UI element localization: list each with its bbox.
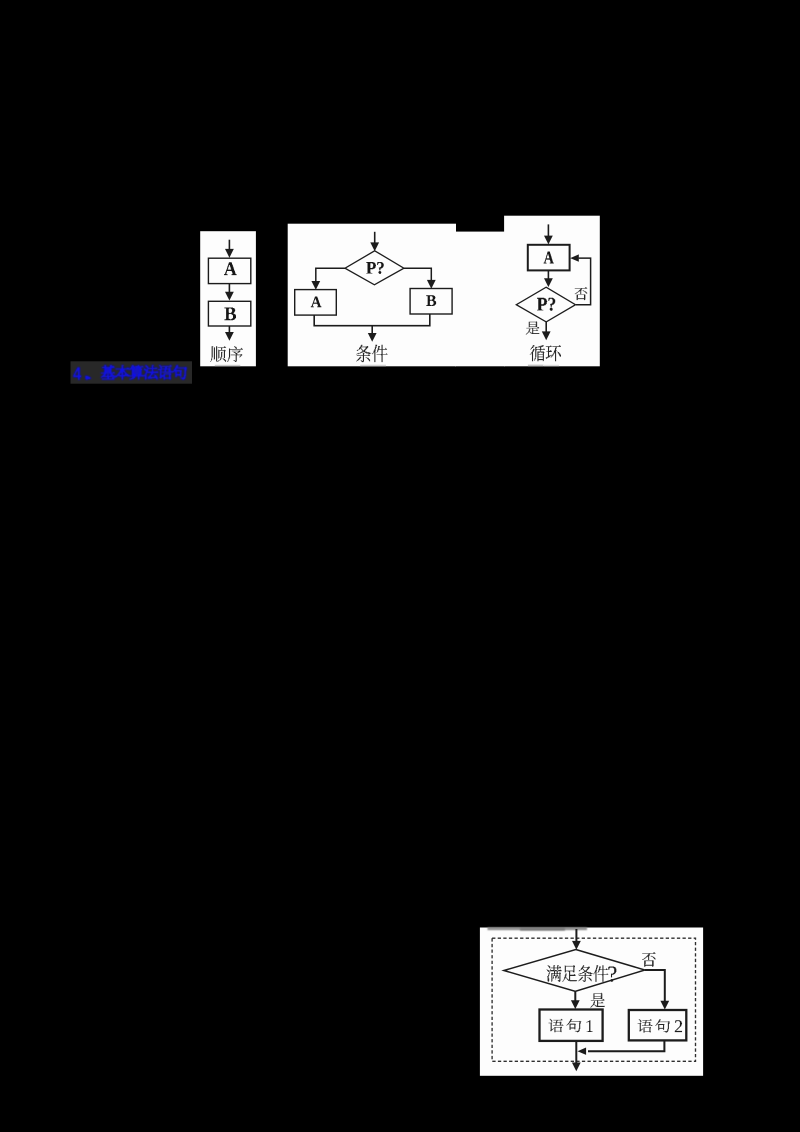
fig2 wire out <box>371 326 373 335</box>
white patch fig2 <box>288 224 456 367</box>
fig1 scan bar <box>215 365 241 367</box>
fig2 diamond P? <box>345 251 404 285</box>
fig2 scan bar <box>360 365 386 367</box>
white patch fig1 <box>200 231 256 366</box>
fig3 label fou <box>575 287 587 300</box>
fig1 label shunxu <box>211 346 227 362</box>
white patch fig4 <box>480 928 703 1076</box>
fig2 wire left branch <box>316 268 345 283</box>
fig4 dashed frame <box>492 938 695 1061</box>
heading text 4. jiben suanfa yuju <box>73 365 186 380</box>
heading halo <box>71 361 193 383</box>
fig4 label fou <box>642 952 655 967</box>
fig2 wire right branch <box>404 268 431 282</box>
fig4 wire join from box2 <box>588 1040 664 1051</box>
fig1 box A <box>208 258 250 283</box>
fig4 diamond <box>504 950 645 992</box>
fig2 box A <box>295 290 337 316</box>
fig4 wire in <box>575 929 577 942</box>
fig4 label shi <box>590 993 605 1008</box>
fig1 wire A-B <box>228 284 230 293</box>
fig3 wire top <box>547 224 549 237</box>
white bridge <box>455 232 505 367</box>
fig3 scan bar <box>528 365 544 367</box>
fig4 box yuju1 <box>540 1010 603 1041</box>
fig4 wire out <box>575 1041 577 1064</box>
fig3 label shi <box>526 321 540 334</box>
fig4 diamond text manzutiaojian <box>547 965 562 982</box>
fig4 top remnant smudge <box>488 927 588 931</box>
fig1 box B <box>208 301 250 326</box>
fig4 wire right branch <box>645 970 665 1002</box>
fig3 wire out <box>545 322 547 333</box>
fig3 box A <box>528 245 570 271</box>
fig1 wire out <box>228 326 230 333</box>
white patch fig3 <box>504 216 600 367</box>
fig1 wire top <box>228 240 230 250</box>
fig3 wire A-diamond <box>547 270 549 280</box>
fig2 wire top <box>374 232 376 244</box>
fig2 wire join <box>314 314 430 326</box>
fig3 diamond P? <box>516 287 575 322</box>
fig4 wire diamond-box1 <box>574 991 576 1002</box>
fig4 box yuju2 <box>629 1010 687 1040</box>
fig3 label xunhuan <box>530 345 545 361</box>
fig2 box B <box>410 289 452 315</box>
fig3 feedback wire <box>570 254 579 261</box>
fig2 label tiaojian <box>356 345 371 362</box>
